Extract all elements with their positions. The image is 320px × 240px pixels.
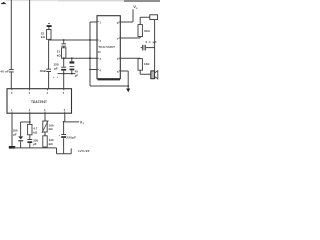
svg-text:s: s	[83, 122, 85, 125]
capacitor C-220uF-b	[29, 135, 31, 139]
top border line	[6, 0, 58, 2]
svg-text:4: 4	[100, 69, 102, 72]
wire W5 bottom rail	[12, 148, 71, 154]
svg-text:40nF: 40nF	[40, 69, 47, 73]
resistor R-21k	[63, 47, 65, 48]
svg-text:TDA7296T: TDA7296T	[98, 45, 115, 49]
resistor R-31	[138, 25, 142, 37]
svg-text:kΩ: kΩ	[49, 127, 54, 131]
svg-text:TDA7294T: TDA7294T	[31, 100, 47, 104]
pin ticks U1 left	[97, 22, 99, 70]
wire V3 down	[48, 40, 50, 89]
capacitor C-45uF	[71, 58, 73, 61]
resistor R-4.7k	[29, 122, 31, 124]
wire Vs	[120, 9, 133, 22]
wire to L-box	[140, 17, 150, 24]
wire pin5-drop	[63, 74, 65, 89]
wire pin7 out	[120, 37, 140, 38]
svg-text:0,1 µF: 0,1 µF	[146, 40, 157, 44]
svg-text:5: 5	[64, 109, 66, 112]
pin ticks U2 top	[12, 89, 64, 91]
pin ticks U1 right	[119, 22, 121, 71]
wire pin2-bottom	[21, 113, 30, 122]
wire pin4 stub	[90, 69, 97, 71]
svg-text:3: 3	[29, 92, 31, 95]
svg-text:kΩ: kΩ	[41, 35, 46, 39]
input terminal mark	[1, 3, 6, 4]
node W1-21k	[63, 39, 65, 41]
svg-text:+: +	[59, 134, 61, 137]
wire pin6 out	[120, 57, 140, 59]
capacitor C-in1 40nF	[9, 68, 14, 71]
svg-text:kΩ: kΩ	[33, 130, 38, 134]
svg-text:13Ω: 13Ω	[144, 62, 150, 66]
wire V2	[29, 0, 31, 89]
svg-text:µF: µF	[13, 132, 17, 136]
wire input line V1	[10, 0, 12, 89]
svg-text:2: 2	[47, 92, 49, 95]
svg-text:2: 2	[100, 40, 102, 43]
capacitor C-on-V3	[46, 68, 51, 71]
svg-text:+: +	[53, 76, 55, 79]
svg-text:40 nF: 40 nF	[0, 69, 9, 73]
op-amp U1 TDA7296T box	[97, 16, 120, 79]
wire W2 to pin9	[64, 57, 97, 59]
capacitor C-220uF-mid	[63, 58, 65, 66]
wire W1 to pin2	[49, 38, 97, 41]
resistor R-22k	[47, 30, 51, 40]
inductor L1	[150, 15, 158, 20]
wire to speaker	[140, 70, 150, 74]
resistor R-120k	[44, 132, 46, 136]
svg-text:kΩ: kΩ	[57, 53, 62, 57]
svg-text:3: 3	[100, 58, 102, 61]
svg-text:6: 6	[11, 92, 13, 95]
ground	[9, 146, 15, 149]
wire pin1 to ground	[11, 113, 13, 146]
ground arrow	[126, 89, 130, 93]
potentiometer R-100k	[44, 113, 46, 121]
resistor R-13	[138, 59, 142, 71]
svg-text:220µF: 220µF	[66, 136, 76, 140]
svg-text:+: +	[57, 76, 59, 79]
wire pin5-bottom to -Vs	[65, 113, 79, 122]
wire right column	[154, 20, 156, 71]
svg-text:s: s	[136, 7, 138, 10]
speaker LS	[151, 71, 155, 79]
wire W3	[58, 73, 76, 75]
svg-text:µF: µF	[33, 142, 37, 146]
wire W7 under U1	[90, 85, 128, 87]
svg-text:1: 1	[11, 109, 13, 112]
wire pin5-right down	[120, 71, 128, 89]
svg-text:31Ω: 31Ω	[144, 29, 150, 33]
op-amp U2 TDA7294T box	[7, 89, 72, 114]
svg-text:5: 5	[63, 92, 65, 95]
svg-text:kΩ: kΩ	[49, 142, 54, 146]
svg-text:µF: µF	[54, 67, 58, 71]
svg-text:10: 10	[98, 51, 101, 54]
wire x90 rail	[90, 22, 97, 86]
capacitor C-100uF	[20, 122, 22, 136]
svg-text:2: 2	[29, 109, 31, 112]
capacitor C-01uF	[141, 47, 142, 49]
pin ticks U2 bottom	[12, 112, 65, 114]
svg-text:1: 1	[100, 21, 102, 24]
capacitor C-21k	[63, 40, 65, 43]
capacitor C-220uF-r	[63, 122, 65, 134]
svg-text:12V/9F: 12V/9F	[78, 149, 90, 153]
svg-text:4: 4	[44, 109, 46, 112]
capacitor C2 electrolytic top	[48, 22, 50, 25]
